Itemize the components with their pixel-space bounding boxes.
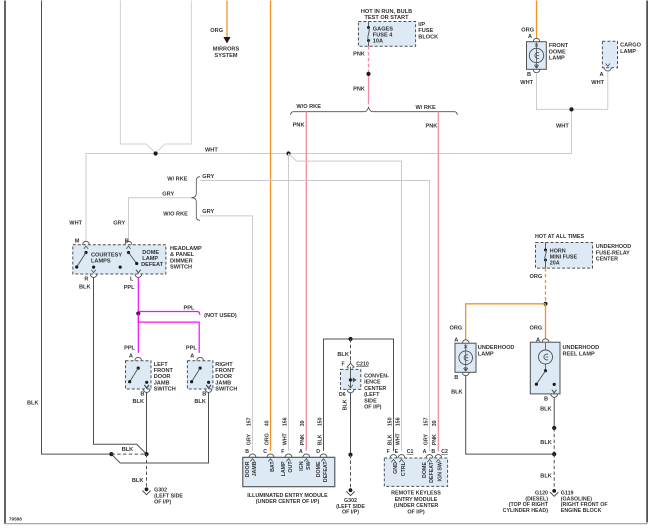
svg-text:WHT: WHT <box>591 80 604 86</box>
svg-text:BLK: BLK <box>27 400 39 406</box>
svg-text:GRY: GRY <box>246 434 252 446</box>
junction WHT split <box>286 151 290 155</box>
svg-text:PNK: PNK <box>353 86 365 92</box>
ground G302 center <box>336 488 365 515</box>
wire BLK 150 between modules <box>324 339 394 451</box>
wire BLK reel lamp to splice <box>553 398 555 429</box>
svg-text:W/O RKE: W/O RKE <box>296 104 321 110</box>
label ILLUMINATED ENTRY MODULE <box>247 493 328 505</box>
wire ORG to mirrors system <box>210 1 227 38</box>
wire ORG fuse output <box>530 268 546 302</box>
svg-text:MIRRORS: MIRRORS <box>213 47 240 53</box>
svg-text:10A: 10A <box>373 38 383 44</box>
svg-text:ORG: ORG <box>450 326 463 332</box>
svg-text:BLK: BLK <box>387 434 393 445</box>
svg-text:B: B <box>544 396 548 402</box>
svg-text:DOOR: DOOR <box>245 461 251 477</box>
svg-text:PNK: PNK <box>426 124 438 130</box>
svg-text:DOME: DOME <box>316 461 322 477</box>
pin B right jamb switch <box>194 385 212 405</box>
svg-text:ORG: ORG <box>521 28 534 34</box>
pin R dimmer switch <box>84 270 97 283</box>
svg-text:GRY: GRY <box>162 191 174 197</box>
pin B front dome lamp <box>527 65 540 78</box>
svg-text:DOOR: DOOR <box>215 374 232 380</box>
svg-text:WHT: WHT <box>520 80 533 86</box>
svg-text:REMOTE KEYLESS: REMOTE KEYLESS <box>391 491 441 497</box>
svg-text:DOOR: DOOR <box>154 374 171 380</box>
svg-text:WHT: WHT <box>556 123 569 129</box>
svg-text:B: B <box>454 375 458 381</box>
fuse block underhood fuse-relay center <box>536 243 593 269</box>
svg-text:PPL: PPL <box>184 306 195 312</box>
svg-text:BLK: BLK <box>540 474 552 480</box>
svg-text:PPL: PPL <box>124 285 135 291</box>
svg-text:& PANEL: & PANEL <box>170 252 195 258</box>
svg-text:LEFT: LEFT <box>154 362 169 368</box>
svg-text:COURTESY: COURTESY <box>91 253 122 259</box>
svg-text:LAMP: LAMP <box>620 49 636 55</box>
svg-text:PNK: PNK <box>293 123 305 129</box>
svg-text:39: 39 <box>432 420 438 426</box>
wire PPL from dimmer L <box>137 278 139 314</box>
pin D illuminated entry module (BLK 150) <box>316 417 329 482</box>
pin C illuminated entry module (ORG 40) <box>263 420 276 472</box>
svg-text:CTRL: CTRL <box>401 461 407 476</box>
svg-text:BLK: BLK <box>540 440 552 446</box>
svg-text:A: A <box>454 338 458 344</box>
pin B illuminated entry module (GRY 157) <box>245 417 258 477</box>
pin B left jamb switch <box>133 385 151 405</box>
svg-text:BLK: BLK <box>194 399 206 405</box>
fuse GAGES FUSE 4 10A <box>367 22 393 47</box>
fuse block I/P fuse block <box>358 22 415 47</box>
wire WHT cargo lamp to junction <box>591 71 608 109</box>
svg-text:WHT: WHT <box>69 221 82 227</box>
pin B underhood reel lamp <box>540 390 558 413</box>
splice PNK <box>366 72 370 76</box>
svg-text:156: 156 <box>282 417 288 426</box>
svg-text:ENTRY MODULE: ENTRY MODULE <box>395 497 438 503</box>
junction BLK left <box>109 452 113 456</box>
switch right front door jamb switch <box>187 357 237 392</box>
wire GRY dimmer switch to brace <box>129 198 192 241</box>
svg-text:GRY: GRY <box>113 221 125 227</box>
svg-text:OUT: OUT <box>288 461 294 473</box>
pin B remote keyless entry module (PNK 39) <box>431 420 443 481</box>
svg-text:SW: SW <box>306 461 312 470</box>
svg-text:GRY: GRY <box>202 209 214 215</box>
svg-text:(UNDER CENTER OF I/P): (UNDER CENTER OF I/P) <box>256 499 320 505</box>
svg-text:GRY: GRY <box>423 434 429 446</box>
svg-text:FUSE-RELAY: FUSE-RELAY <box>596 250 630 256</box>
label connector C1 <box>407 449 414 455</box>
svg-text:157: 157 <box>423 417 429 426</box>
wire BLK underhood lamp to junction <box>466 376 555 454</box>
pin A cargo lamp <box>600 64 612 79</box>
label WHT <box>205 148 218 154</box>
junction BLK right <box>552 452 556 456</box>
svg-text:UNDERHOOD: UNDERHOOD <box>596 244 631 250</box>
label UNDERHOOD FUSE-RELAY CENTER <box>596 244 631 262</box>
label CONVENIENCE CENTER <box>364 374 389 411</box>
svg-text:OF I/P): OF I/P) <box>364 405 382 411</box>
splice BLK reel <box>552 426 556 430</box>
svg-text:L: L <box>130 277 134 283</box>
label HOT IN RUN, BULB TEST OR START <box>361 9 412 21</box>
svg-text:ORG: ORG <box>210 28 223 34</box>
svg-text:BLK: BLK <box>451 390 463 396</box>
svg-text:PNK: PNK <box>432 434 438 445</box>
wire BLK to G302 <box>132 454 147 487</box>
svg-text:C1: C1 <box>407 449 414 455</box>
svg-text:CARGO: CARGO <box>620 43 641 49</box>
switch left front door jamb switch <box>126 357 176 392</box>
svg-text:DOME: DOME <box>422 462 428 478</box>
svg-text:D6: D6 <box>339 392 346 398</box>
svg-text:LAMPS: LAMPS <box>91 259 111 265</box>
svg-text:LAMP: LAMP <box>549 56 565 62</box>
svg-text:OF I/P): OF I/P) <box>342 510 359 516</box>
wire PPL to left front door jamb switch <box>124 314 138 360</box>
svg-text:157: 157 <box>246 417 252 426</box>
lamp underhood lamp <box>455 340 514 373</box>
svg-text:PPL: PPL <box>124 345 135 351</box>
pin F illuminated entry module (WHT 156) <box>281 417 294 476</box>
svg-text:A: A <box>528 34 532 40</box>
svg-text:DEFEAT: DEFEAT <box>141 262 164 268</box>
svg-text:F: F <box>281 449 284 455</box>
svg-text:150: 150 <box>317 417 323 426</box>
wire PNK fuse output <box>353 46 368 72</box>
arrow mirrors system feed <box>223 37 230 44</box>
svg-text:RIGHT: RIGHT <box>215 362 233 368</box>
svg-text:A: A <box>423 449 427 455</box>
fuse HORN MINI FUSE 20A <box>544 243 577 269</box>
svg-text:R: R <box>84 277 88 283</box>
label I/P FUSE BLOCK <box>418 22 438 40</box>
svg-text:IENCE: IENCE <box>364 380 381 386</box>
label connector C2 <box>441 449 448 455</box>
svg-text:M: M <box>75 239 80 245</box>
svg-text:LAMP: LAMP <box>478 351 494 357</box>
svg-text:W/O RKE: W/O RKE <box>163 212 188 218</box>
svg-text:A: A <box>600 72 604 78</box>
module illuminated entry module <box>243 457 335 486</box>
svg-text:(UNDER CENTER: (UNDER CENTER <box>394 503 439 509</box>
svg-text:39: 39 <box>300 420 306 426</box>
svg-text:BLK: BLK <box>317 434 323 445</box>
svg-text:PNK: PNK <box>353 51 365 57</box>
pin E remote keyless entry module (WHT 156) <box>395 417 407 476</box>
wire PNK 39 right (w/ RKE) <box>426 112 439 452</box>
svg-text:F: F <box>342 362 345 368</box>
svg-text:CENTER: CENTER <box>364 386 386 392</box>
switch headlamp & panel dimmer switch <box>73 245 166 274</box>
junction ORG <box>543 302 547 306</box>
svg-text:PNK: PNK <box>300 434 306 445</box>
svg-text:ORG: ORG <box>264 433 270 445</box>
svg-text:B: B <box>245 449 249 455</box>
svg-text:GRY: GRY <box>202 174 214 180</box>
pin A remote keyless entry module (GRY 157) <box>422 417 435 482</box>
label REMOTE KEYLESS ENTRY MODULE <box>391 491 441 516</box>
wire WHT dome lamp to junction <box>520 73 608 110</box>
svg-text:150: 150 <box>387 417 393 426</box>
svg-text:FRONT: FRONT <box>215 368 235 374</box>
svg-text:ILLUMINATED ENTRY MODULE: ILLUMINATED ENTRY MODULE <box>247 493 328 499</box>
svg-text:BLK: BLK <box>132 478 144 484</box>
pin M dimmer switch <box>75 239 90 249</box>
svg-text:JAMB: JAMB <box>154 380 170 386</box>
lamp underhood reel lamp <box>530 339 599 394</box>
svg-text:DEFEAT: DEFEAT <box>323 461 329 483</box>
svg-text:UNDERHOOD: UNDERHOOD <box>563 345 600 351</box>
node instrument-panel harness bus <box>120 1 191 154</box>
label MIRRORS SYSTEM <box>213 47 240 59</box>
junction WHT dome/cargo <box>556 107 574 129</box>
svg-text:OF I/P): OF I/P) <box>154 499 171 505</box>
wire WHT main run <box>86 109 572 241</box>
svg-text:WHT: WHT <box>205 148 218 154</box>
svg-text:F: F <box>387 449 390 455</box>
label BLK / PPL under dimmer <box>79 285 135 291</box>
wire ORG 40 to illuminated entry module <box>270 1 272 451</box>
svg-text:156: 156 <box>395 417 401 426</box>
wire PPL to right front door jamb switch <box>138 314 199 360</box>
convenience center <box>341 367 361 390</box>
ground G302 left <box>142 487 183 505</box>
svg-text:BLK: BLK <box>540 406 552 412</box>
splice BLK <box>348 453 352 457</box>
svg-text:JAMB: JAMB <box>215 380 231 386</box>
pin F convenience center / C210 <box>342 361 369 368</box>
svg-text:BLK: BLK <box>79 285 91 291</box>
wire BLK from off-page (top left) <box>27 1 111 455</box>
module remote keyless entry module <box>384 458 447 486</box>
svg-text:B: B <box>527 72 531 78</box>
lamp cargo lamp connector <box>602 41 641 67</box>
svg-text:BLK: BLK <box>337 352 349 358</box>
wire BLK convenience center to splice <box>343 393 351 455</box>
svg-text:B: B <box>125 239 129 245</box>
label WHT / GRY at switch <box>69 221 125 227</box>
svg-text:B: B <box>431 449 435 455</box>
svg-text:REEL LAMP: REEL LAMP <box>563 351 595 357</box>
wire WHT 156 to illuminated entry module <box>288 154 290 451</box>
svg-text:BLK: BLK <box>122 447 134 453</box>
pin D6 convenience center <box>339 385 354 398</box>
wire BLK from right jamb switch <box>111 392 208 463</box>
svg-text:DOME: DOME <box>549 49 566 55</box>
svg-text:ENGINE BLOCK: ENGINE BLOCK <box>561 508 602 514</box>
svg-text:UNDERHOOD: UNDERHOOD <box>478 345 515 351</box>
svg-text:E: E <box>395 449 399 455</box>
svg-text:FRONT: FRONT <box>549 43 569 49</box>
svg-text:79588: 79588 <box>9 517 22 522</box>
svg-text:DEFEAT: DEFEAT <box>429 461 435 483</box>
node W/O RKE / W RKE option brace <box>291 104 458 115</box>
svg-text:HEADLAMP: HEADLAMP <box>170 246 202 252</box>
label HEADLAMP & PANEL DIMMER SWITCH <box>170 246 202 271</box>
svg-text:GND: GND <box>393 462 399 474</box>
svg-text:SIDE: SIDE <box>364 398 377 404</box>
svg-text:C2: C2 <box>441 449 448 455</box>
wire PNK 39 left (w/o RKE) <box>293 112 307 451</box>
svg-text:JAMB: JAMB <box>252 461 258 476</box>
wire ORG to underhood reel lamp <box>530 304 546 344</box>
junction bus-to-WHT <box>154 151 158 155</box>
svg-text:IGN SW: IGN SW <box>438 462 444 481</box>
svg-text:FUSE: FUSE <box>418 28 433 34</box>
svg-text:PPL: PPL <box>186 345 197 351</box>
svg-text:HOT AT ALL TIMES: HOT AT ALL TIMES <box>535 234 585 240</box>
switch courtesy lamps contacts <box>75 251 95 269</box>
svg-text:D: D <box>316 449 320 455</box>
svg-text:C: C <box>263 449 267 455</box>
svg-text:WHT: WHT <box>395 432 401 445</box>
svg-text:IGN: IGN <box>299 461 305 471</box>
svg-text:BAT: BAT <box>270 461 276 472</box>
svg-text:C210: C210 <box>356 361 369 367</box>
switch dome lamp defeat contacts <box>127 251 141 273</box>
svg-text:ORG: ORG <box>530 274 543 280</box>
svg-text:ORG: ORG <box>530 326 543 332</box>
svg-text:A: A <box>299 449 303 455</box>
svg-text:SWITCH: SWITCH <box>170 265 192 271</box>
wire WHT 156 to remote keyless entry module <box>289 154 402 452</box>
ground G120 / G119 <box>503 489 609 514</box>
junction BLK 150 <box>348 337 352 341</box>
svg-text:I/P: I/P <box>418 22 425 28</box>
svg-text:WHT: WHT <box>282 432 288 445</box>
wire BLK from dimmer R <box>94 278 147 455</box>
svg-text:CYLINDER HEAD): CYLINDER HEAD) <box>503 508 549 514</box>
wire GRY 157 w/o RKE to illuminated entry module <box>200 209 253 451</box>
svg-text:SWITCH: SWITCH <box>215 386 237 392</box>
wire BLK from left jamb switch <box>146 392 148 454</box>
svg-text:OF I/P): OF I/P) <box>407 509 425 515</box>
wire BLK to G302 center <box>350 455 352 488</box>
svg-text:BLOCK: BLOCK <box>418 34 438 40</box>
wire GRY 157 w/ RKE to remote keyless entry module <box>200 174 430 451</box>
wire BLK splice to junction <box>540 428 554 454</box>
junction PPL <box>136 311 140 315</box>
node GRY option brace <box>162 177 200 221</box>
pin L dimmer switch <box>130 270 142 283</box>
svg-text:A: A <box>190 354 194 360</box>
pin B underhood lamp <box>451 368 469 396</box>
pin A illuminated entry module (PNK 39) <box>299 420 312 470</box>
wire ORG to front dome lamp <box>521 1 536 40</box>
label HOT AT ALL TIMES <box>535 234 585 240</box>
svg-text:W/ RKE: W/ RKE <box>416 105 436 111</box>
svg-text:40: 40 <box>264 420 270 426</box>
svg-text:LAMP: LAMP <box>281 461 287 476</box>
svg-text:B: B <box>202 392 206 398</box>
svg-text:BLK: BLK <box>133 399 145 405</box>
svg-text:CONVEN-: CONVEN- <box>364 374 389 380</box>
svg-text:HOT IN RUN, BULB: HOT IN RUN, BULB <box>361 9 412 15</box>
svg-text:DIMMER: DIMMER <box>170 258 193 264</box>
svg-text:(NOT USED): (NOT USED) <box>204 313 237 319</box>
wire PNK splice to brace <box>353 76 368 105</box>
svg-text:W/ RKE: W/ RKE <box>167 177 187 183</box>
svg-text:BLK: BLK <box>343 399 349 410</box>
svg-text:CENTER: CENTER <box>596 257 618 263</box>
svg-text:20A: 20A <box>550 261 560 267</box>
svg-text:TEST OR START: TEST OR START <box>364 15 409 21</box>
svg-text:(LEFT: (LEFT <box>364 392 380 398</box>
node center contact <box>119 266 122 269</box>
wire BLK splice segment <box>111 447 146 454</box>
svg-text:SWITCH: SWITCH <box>154 386 176 392</box>
svg-text:SYSTEM: SYSTEM <box>214 53 237 59</box>
pin F remote keyless entry module (BLK 150) <box>387 417 399 473</box>
junction BLK at ground drop <box>144 452 148 456</box>
wire BLK to convenience center <box>337 339 350 361</box>
svg-text:B: B <box>140 392 144 398</box>
wire BLK to G120/G119 <box>540 454 554 488</box>
wire ORG to underhood lamp <box>450 304 546 344</box>
svg-text:A: A <box>129 354 133 360</box>
pin B dimmer switch <box>125 239 132 249</box>
wire PPL not used stub <box>138 306 237 319</box>
lamp front dome lamp <box>527 38 569 69</box>
svg-text:FRONT: FRONT <box>154 368 174 374</box>
